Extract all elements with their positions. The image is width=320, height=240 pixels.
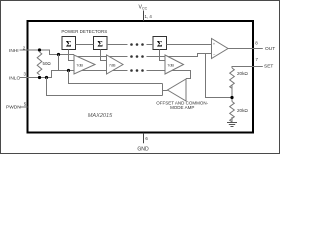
svg-text:OUT: OUT <box>265 46 275 52</box>
wire S1 tap <box>69 50 75 61</box>
wire A2 output top to dots <box>110 56 128 58</box>
wire A3 top output to op-amp minus input <box>168 54 212 57</box>
IC box U1 (MAX2015) <box>28 21 254 133</box>
svg-text:7dB: 7dB <box>109 63 116 68</box>
wire A2 output bottom to dots <box>113 70 128 72</box>
detector S3 <box>153 37 167 50</box>
node ellipsis bottom rail <box>130 69 144 72</box>
node INHI junction <box>38 48 41 51</box>
wire top rail into A3 <box>147 56 166 58</box>
wire GND lead <box>143 133 145 143</box>
svg-text:GND: GND <box>137 147 149 153</box>
wire sum line S2-dots <box>107 44 128 46</box>
wire INLO lead <box>20 77 28 79</box>
node INLO junction <box>38 76 41 79</box>
amplifier A3 <box>165 55 184 74</box>
node divider midpoint <box>230 96 233 99</box>
detector S2 <box>94 37 108 50</box>
svg-text:MODE AMP: MODE AMP <box>170 105 194 110</box>
svg-text:20kΩ: 20kΩ <box>237 71 248 76</box>
svg-text:7dB: 7dB <box>167 63 174 68</box>
amplifier A1 <box>74 55 95 74</box>
wire INHI rail <box>28 50 75 55</box>
wire S2 tap <box>101 50 107 61</box>
wire feedback B <box>47 78 163 96</box>
wire interstage bottom A1-A2 <box>82 70 107 72</box>
svg-text:PWDN: PWDN <box>6 105 21 111</box>
wire INHI lead <box>20 49 28 51</box>
node ellipsis top rail <box>130 55 144 58</box>
power VCC <box>139 4 153 21</box>
svg-text:Σ: Σ <box>66 39 72 49</box>
pin INHI <box>9 45 28 54</box>
node ellipsis sum line <box>130 43 144 46</box>
svg-text:20kΩ: 20kΩ <box>237 108 248 113</box>
op-amp U3 offset and common-mode amp <box>168 79 187 101</box>
svg-text:INHI: INHI <box>9 48 19 54</box>
wire divider middle <box>231 85 233 102</box>
wire sum line dots-S3 <box>147 44 154 46</box>
node INHI tap <box>57 53 60 56</box>
node feedback A join <box>67 69 70 72</box>
wire cross-connect to lower input <box>58 55 60 71</box>
outer frame <box>1 1 280 154</box>
svg-text:7dB: 7dB <box>76 63 83 68</box>
wire sum line S3 to op-amp <box>167 44 212 46</box>
pin INLO <box>9 72 28 82</box>
svg-text:MAX2015: MAX2015 <box>88 113 113 119</box>
svg-text:Σ: Σ <box>97 39 103 49</box>
node feedback B join <box>45 76 48 79</box>
ground GND pin <box>137 133 149 153</box>
ground symbol <box>227 123 237 127</box>
pin PWDN <box>6 101 28 110</box>
wire PWDN lead <box>20 106 28 108</box>
wire bottom rail into A3 and to offset amp input <box>147 71 191 79</box>
wire sum line S1-S2 <box>76 44 94 46</box>
resistor 50 ohm <box>37 52 42 75</box>
wire interstage top A1-A2 <box>78 56 107 58</box>
wire SET line <box>232 67 263 69</box>
resistor R1 20k <box>230 68 235 88</box>
svg-text:1, 4: 1, 4 <box>145 14 153 19</box>
wire INLO rail <box>28 71 75 78</box>
svg-text:SET: SET <box>264 63 273 69</box>
wire S3 tap <box>160 50 166 61</box>
resistor R2 20k <box>230 102 235 122</box>
wire divider bottom <box>231 117 233 123</box>
wire VCC lead <box>143 11 145 22</box>
svg-text:50Ω: 50Ω <box>43 61 52 66</box>
detector S1 <box>62 37 76 50</box>
svg-text:POWER DETECTORS: POWER DETECTORS <box>61 29 107 34</box>
amplifier A2 <box>107 55 124 74</box>
wire OUT line <box>228 48 263 50</box>
wire offset amp output fork <box>163 90 168 92</box>
wire feedback A <box>69 71 163 84</box>
op-amp U2 output buffer <box>212 39 229 59</box>
svg-text:Σ: Σ <box>157 39 163 49</box>
svg-text:INLO: INLO <box>9 76 20 82</box>
wire op-amp minus to divider tap <box>206 54 233 98</box>
